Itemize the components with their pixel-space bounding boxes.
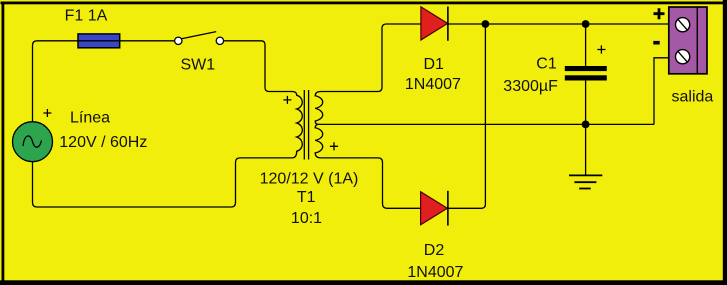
node junction dot capacitor top [582,20,590,28]
diode D2 [421,191,448,226]
svg-text:10:1: 10:1 [291,210,322,227]
wire [33,41,175,122]
svg-text:C1: C1 [536,55,557,72]
screw upper [676,18,690,32]
node left contact [175,37,182,44]
wire: source top to switch (through fuse) [33,34,175,122]
capacitor C1 [565,24,607,175]
wire cathode bar D2 [447,191,449,226]
AC source: Linea 120V/60Hz [13,122,53,162]
wire top lead [585,24,587,66]
screw lower [676,50,690,64]
svg-text:120V / 60Hz: 120V / 60Hz [59,134,147,151]
svg-text:D2: D2 [424,242,445,259]
svg-text:1N4007: 1N4007 [407,264,463,281]
ground [569,175,602,188]
svg-text:3300µF: 3300µF [503,78,558,95]
wire: secondary bottom to diode D2 [321,158,448,208]
terminal block salida [669,7,707,74]
svg-text:SW1: SW1 [180,56,215,73]
svg-text:T1: T1 [297,189,316,206]
wire: center tap rail to minus terminal [317,58,669,125]
node right contact [216,37,223,44]
wire cathode bar D1 [447,7,449,41]
node + output terminal [654,8,665,19]
svg-text:1N4007: 1N4007 [405,76,461,93]
wire: D2 cathode up to positive rail junction [448,24,486,208]
transformer T1 core [304,90,308,160]
node + polarity primary [283,96,291,104]
node + polarity capacitor [597,45,605,53]
fuse F1 body [78,34,120,48]
svg-text:salida: salida [671,89,713,106]
svg-text:F1 1A: F1 1A [65,7,108,24]
wire: positive rail D1 cathode to output terminal [448,23,669,25]
node + polarity secondary [330,142,338,150]
node - output terminal [653,41,659,45]
transformer T1 secondary winding with center tap [315,92,323,158]
wire bottom lead [585,81,587,176]
node + polarity of source [43,109,51,117]
svg-text:D1: D1 [423,56,444,73]
node junction dot capacitor bottom [582,121,590,129]
svg-text:Línea: Línea [70,110,110,127]
wire lever [182,32,217,39]
wire: switch to transformer primary, primary winding, return loop to source [33,41,303,207]
diode D1 [421,7,448,41]
node junction dot D1 output [482,20,490,28]
wire: secondary top to diode D1 [321,24,448,92]
switch SW1 [175,32,224,45]
svg-text:120/12 V (1A): 120/12 V (1A) [260,170,359,187]
